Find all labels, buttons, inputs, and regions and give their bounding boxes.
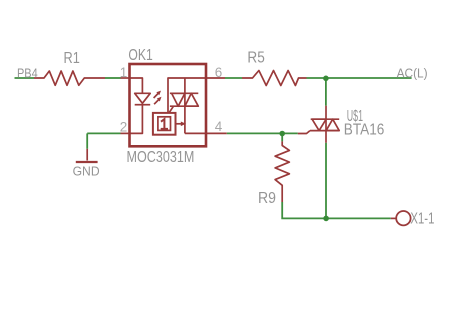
- svg-text:AC(L): AC(L): [397, 65, 428, 80]
- svg-text:PB4: PB4: [17, 65, 38, 80]
- svg-text:4: 4: [215, 119, 223, 134]
- svg-text:R5: R5: [247, 50, 264, 67]
- svg-text:OK1: OK1: [128, 47, 152, 64]
- svg-text:X1-1: X1-1: [410, 210, 434, 227]
- svg-text:GND: GND: [73, 164, 100, 179]
- svg-text:R9: R9: [258, 190, 276, 207]
- svg-text:R1: R1: [64, 50, 80, 67]
- svg-text:2: 2: [120, 120, 128, 135]
- svg-text:MOC3031M: MOC3031M: [127, 149, 195, 166]
- svg-text:1: 1: [120, 65, 128, 80]
- svg-text:6: 6: [215, 65, 223, 80]
- svg-text:BTA16: BTA16: [344, 122, 385, 139]
